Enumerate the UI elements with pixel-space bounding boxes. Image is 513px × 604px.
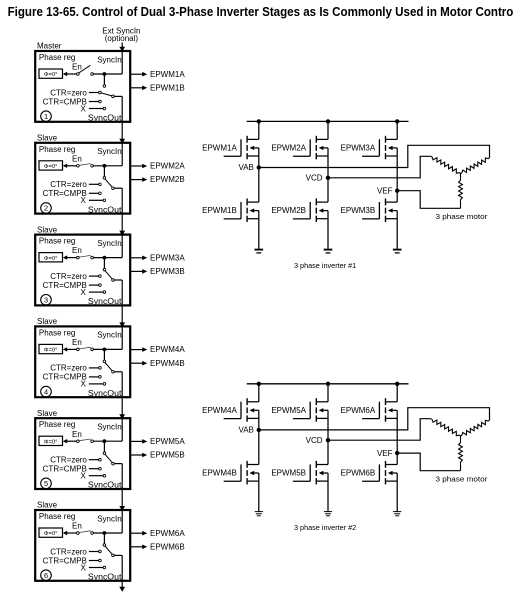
wire X (module 3) [89, 291, 103, 293]
svg-text:Φ=0°: Φ=0° [44, 256, 58, 262]
En switch left contact (module 5) [77, 440, 80, 443]
motor winding right inverter #2 [461, 420, 490, 436]
CTR=zero contact (module 2) [99, 183, 102, 186]
svg-text:SyncIn: SyncIn [97, 239, 121, 248]
wire SyncIn riser (module 1) [121, 52, 123, 74]
wire En switch to SyncIn riser (module 4) [93, 348, 122, 350]
X contact (module 3) [103, 291, 106, 294]
wire SyncOut module 3 to SyncIn module 4 [121, 305, 123, 323]
svg-text:En: En [72, 154, 82, 163]
junction phase node VAB inverter #2 [257, 428, 261, 432]
svg-text:VCD: VCD [306, 436, 323, 445]
wire X (module 4) [89, 383, 103, 385]
wire EPWM5A output (module 5) [130, 440, 142, 442]
wire CTR=zero (module 5) [89, 459, 99, 461]
wire junction to pass-through contact (module 4) [103, 349, 105, 360]
svg-text:EPWM1A: EPWM1A [150, 70, 185, 79]
svg-text:Phase reg: Phase reg [39, 237, 75, 246]
wire EPWM6B source to ground [396, 473, 398, 512]
svg-text:CTR=zero: CTR=zero [50, 272, 87, 281]
junction phase node VCD inverter #2 [326, 438, 330, 442]
wire Ext SyncIn into module 1 [121, 43, 123, 48]
svg-text:En: En [72, 246, 82, 255]
circled number 6 (module 6) [41, 570, 52, 581]
wire CTR=zero (module 1) [89, 92, 99, 94]
circled number 5 (module 5) [41, 478, 52, 489]
wire EPWM3A source to phase node [396, 148, 398, 191]
svg-text:Slave: Slave [37, 317, 58, 326]
pass-through contact (module 2) [103, 177, 106, 180]
CTR=zero contact (module 3) [99, 275, 102, 278]
wire pivot to SyncOut drop (module 1) [114, 95, 122, 97]
transistor Q11 EPWM5B [293, 480, 310, 482]
svg-text:3: 3 [44, 296, 48, 305]
wire CTR=CMPB (module 6) [89, 560, 99, 562]
CTR=CMPB contact (module 1) [99, 100, 102, 103]
ePWM module 2 (Slave) box [35, 143, 130, 214]
svg-text:3 phase motor: 3 phase motor [436, 212, 488, 221]
svg-text:X: X [80, 380, 86, 389]
svg-text:Φ=0°: Φ=0° [44, 531, 58, 537]
svg-text:EPWM2A: EPWM2A [271, 144, 306, 153]
CTR=zero contact (module 5) [99, 458, 102, 461]
svg-text:Phase reg: Phase reg [39, 328, 75, 337]
wire SyncIn riser (module 2) [121, 144, 123, 166]
wire SyncOut drop (module 4) [121, 372, 123, 397]
svg-text:VEF: VEF [377, 449, 393, 458]
wire EPWM6B output (module 6) [130, 546, 142, 548]
svg-text:VCD: VCD [306, 174, 323, 183]
X contact (module 4) [103, 383, 106, 386]
En switch right contact (module 3) [91, 256, 94, 259]
wire rail to EPWM3A drain [396, 121, 398, 139]
wire pivot to SyncOut drop (module 5) [114, 463, 122, 465]
wire SyncIn riser (module 6) [121, 511, 123, 533]
wire SyncOut drop (module 6) [121, 555, 123, 580]
ePWM module 5 (Slave) box [35, 418, 130, 489]
svg-text:Slave: Slave [37, 501, 58, 510]
svg-text:Φ=0°: Φ=0° [44, 348, 58, 354]
wire phase node to EPWM6B drain [396, 453, 398, 464]
svg-text:Figure 13-65. Control of Dual: Figure 13-65. Control of Dual 3-Phase In… [8, 5, 513, 19]
svg-text:SyncIn: SyncIn [97, 55, 121, 64]
transistor Q10 EPWM4B [224, 480, 241, 482]
En switch right contact (module 5) [91, 440, 94, 443]
svg-text:SyncIn: SyncIn [97, 147, 121, 156]
svg-text:Phase reg: Phase reg [39, 420, 75, 429]
svg-text:SyncOut: SyncOut [88, 573, 122, 582]
CTR=CMPB contact (module 6) [99, 559, 102, 562]
junction phase node VEF inverter #1 [395, 189, 399, 193]
wire pivot to SyncOut drop (module 6) [114, 554, 122, 556]
circled number 3 (module 3) [41, 295, 52, 306]
power rail inverter #2 [247, 383, 409, 385]
svg-text:Phase reg: Phase reg [39, 145, 75, 154]
wire EPWM4A output (module 4) [130, 349, 142, 351]
wire rail to EPWM2A drain [327, 121, 329, 139]
svg-text:2: 2 [44, 204, 48, 213]
SyncOut select blade to pass-through (module 6) [105, 546, 112, 554]
svg-text:Master: Master [37, 42, 62, 51]
phase register box Φ=0° (module 1) [39, 69, 63, 78]
pass-through contact (module 6) [103, 544, 106, 547]
wire junction to pass-through contact (module 3) [103, 258, 105, 269]
En switch blade closed (module 3) [79, 255, 91, 257]
transistor Q8 EPWM5A [293, 418, 310, 420]
svg-text:EPWM1B: EPWM1B [150, 83, 185, 92]
wire X (module 5) [89, 475, 103, 477]
SyncOut select pivot contact (module 6) [112, 554, 115, 557]
svg-text:Slave: Slave [37, 225, 58, 234]
En switch blade closed (module 6) [79, 531, 91, 533]
wire CTR=zero (module 3) [89, 275, 99, 277]
wire EPWM2B output (module 2) [130, 179, 142, 181]
motor winding bottom inverter #1 [460, 174, 462, 179]
wire CTR=zero (module 2) [89, 183, 99, 185]
svg-text:CTR=zero: CTR=zero [50, 456, 87, 465]
phase register box Φ=0° (module 5) [39, 436, 63, 445]
SyncOut select pivot contact (module 5) [112, 462, 115, 465]
junction rail node leg 1 inverter #2 [257, 382, 261, 386]
svg-text:EPWM5A: EPWM5A [150, 437, 185, 446]
arrow into phase register (module 2) [63, 164, 67, 168]
svg-text:EPWM6A: EPWM6A [341, 406, 376, 415]
junction SyncIn node (module 5) [103, 439, 107, 443]
motor winding bottom inverter #2 [460, 436, 462, 441]
junction rail node leg 3 inverter #2 [395, 382, 399, 386]
wire EPWM4B source to ground [258, 473, 260, 512]
CTR=CMPB contact (module 5) [99, 467, 102, 470]
svg-text:EPWM3A: EPWM3A [341, 144, 376, 153]
wire rail to EPWM5A drain [327, 384, 329, 402]
ePWM module 4 (Slave) box [35, 326, 130, 397]
wire X (module 2) [89, 199, 103, 201]
wire EPWM6A source to phase node [396, 410, 398, 453]
X contact (module 2) [103, 199, 106, 202]
wire arrow to En switch contact (module 1) [67, 73, 77, 75]
transistor Q4 EPWM1B [224, 218, 241, 220]
X contact (module 5) [103, 474, 106, 477]
wire phase node to EPWM2B drain [327, 178, 329, 202]
wire EPWM2A output (module 2) [130, 165, 142, 167]
wire SyncIn riser (module 5) [121, 419, 123, 441]
svg-text:Phase reg: Phase reg [39, 512, 75, 521]
svg-text:SyncIn: SyncIn [97, 331, 121, 340]
wire SyncOut drop (module 3) [121, 280, 123, 305]
En switch left contact (module 4) [77, 348, 80, 351]
circled number 2 (module 2) [41, 203, 52, 214]
wire EPWM5A source to phase node [327, 410, 329, 440]
svg-text:VEF: VEF [377, 186, 393, 195]
wire X (module 6) [89, 567, 103, 569]
En switch blade closed (module 2) [79, 164, 91, 166]
pass-through contact (module 4) [103, 360, 106, 363]
SyncOut select blade to pass-through (module 2) [105, 179, 112, 187]
svg-text:EPWM3B: EPWM3B [150, 267, 185, 276]
wire SyncOut module 2 to SyncIn module 3 [121, 214, 123, 232]
wire SyncIn riser (module 3) [121, 236, 123, 258]
svg-text:SyncOut: SyncOut [88, 297, 122, 306]
wire phase node to EPWM4B drain [258, 430, 260, 465]
junction SyncIn node (module 6) [103, 531, 107, 535]
junction rail node leg 2 inverter #2 [326, 382, 330, 386]
svg-text:EPWM4A: EPWM4A [202, 406, 237, 415]
junction phase node VAB inverter #1 [257, 165, 261, 169]
svg-text:4: 4 [44, 387, 48, 396]
wire CTR=CMPB (module 1) [89, 101, 99, 103]
En switch left contact (module 3) [77, 256, 80, 259]
transistor Q12 EPWM6B [362, 480, 379, 482]
junction SyncIn node (module 4) [103, 348, 107, 352]
phase register box Φ=0° (module 4) [39, 344, 63, 353]
wire En switch to SyncIn riser (module 2) [93, 165, 122, 167]
wire rail to EPWM4A drain [258, 384, 260, 402]
svg-text:X: X [80, 288, 86, 297]
svg-text:EPWM6B: EPWM6B [150, 542, 185, 551]
junction SyncIn node (module 2) [103, 164, 107, 168]
En switch left contact (module 1) [77, 73, 80, 76]
wire EPWM5B output (module 5) [130, 454, 142, 456]
wire junction to pass-through contact (module 6) [103, 533, 105, 544]
svg-text:CTR=zero: CTR=zero [50, 180, 87, 189]
svg-text:EPWM5B: EPWM5B [271, 469, 306, 478]
SyncOut select blade to pass-through (module 5) [105, 454, 112, 462]
svg-text:SyncIn: SyncIn [97, 514, 121, 523]
junction SyncIn node (module 1) [103, 72, 107, 76]
pass-through contact (module 3) [103, 268, 106, 271]
ground leg 2 inverter #2 [324, 511, 332, 513]
SyncOut select pivot contact (module 4) [112, 371, 115, 374]
wire EPWM1B output (module 1) [130, 87, 142, 89]
wire EPWM3B source to ground [396, 211, 398, 250]
SyncOut select pivot contact (module 1) [112, 95, 115, 98]
junction phase node VEF inverter #2 [395, 451, 399, 455]
pass-through contact (module 5) [103, 452, 106, 455]
SyncOut select blade to CTR=zero (module 1) [101, 93, 112, 96]
SyncOut select pivot contact (module 3) [112, 279, 115, 282]
ground leg 3 inverter #2 [393, 511, 401, 513]
X contact (module 6) [103, 566, 106, 569]
junction phase node VCD inverter #1 [326, 176, 330, 180]
ground leg 3 inverter #1 [393, 249, 402, 251]
wire EPWM2B source to ground [327, 211, 329, 250]
svg-text:EPWM5B: EPWM5B [150, 451, 185, 460]
ePWM module 1 (Master) box [35, 51, 130, 122]
wire EPWM1A output (module 1) [130, 73, 142, 75]
wire SyncOut module 6 continues down [121, 581, 123, 588]
SyncOut select blade to pass-through (module 3) [105, 271, 112, 279]
wire CTR=zero (module 4) [89, 367, 99, 369]
ground leg 2 inverter #1 [324, 249, 333, 251]
wire CTR=CMPB (module 3) [89, 284, 99, 286]
CTR=zero contact (module 1) [99, 91, 102, 94]
wire SyncOut module 5 to SyncIn module 6 [121, 489, 123, 507]
ground leg 1 inverter #2 [255, 511, 263, 513]
svg-text:Phase reg: Phase reg [39, 53, 75, 62]
svg-text:X: X [80, 472, 86, 481]
phase register box Φ=0° (module 6) [39, 528, 63, 537]
svg-text:En: En [72, 338, 82, 347]
ePWM module 3 (Slave) box [35, 235, 130, 306]
transistor Q3 EPWM3A [362, 155, 379, 157]
svg-text:En: En [72, 522, 82, 531]
svg-text:1: 1 [44, 112, 48, 121]
wire SyncOut drop (module 1) [121, 96, 123, 121]
transistor Q5 EPWM2B [293, 218, 310, 220]
wire VAB to motor inverter #1 [259, 145, 490, 167]
wire pivot to SyncOut drop (module 3) [114, 279, 122, 281]
svg-text:X: X [80, 104, 86, 113]
svg-text:CTR=zero: CTR=zero [50, 364, 87, 373]
svg-text:SyncOut: SyncOut [88, 205, 122, 214]
X contact (module 1) [103, 107, 106, 110]
svg-text:SyncOut: SyncOut [88, 114, 122, 123]
wire arrow to En switch contact (module 4) [67, 348, 77, 350]
junction rail node leg 2 inverter #1 [326, 119, 330, 123]
power rail inverter #1 [247, 120, 409, 122]
wire rail to EPWM1A drain [258, 121, 260, 139]
wire phase node to EPWM5B drain [327, 440, 329, 464]
En switch right contact (module 2) [91, 165, 94, 168]
svg-text:EPWM2B: EPWM2B [150, 175, 185, 184]
CTR=CMPB contact (module 2) [99, 192, 102, 195]
junction SyncIn node (module 3) [103, 256, 107, 260]
phase register box Φ=0° (module 3) [39, 253, 63, 262]
transistor Q2 EPWM2A [293, 155, 310, 157]
svg-text:3 phase inverter #1: 3 phase inverter #1 [294, 261, 356, 270]
svg-text:SyncOut: SyncOut [88, 481, 122, 490]
svg-text:X: X [80, 563, 86, 572]
svg-text:VAB: VAB [238, 426, 253, 435]
En switch left contact (module 2) [77, 165, 80, 168]
circled number 4 (module 4) [41, 386, 52, 397]
svg-text:Φ=0°: Φ=0° [44, 72, 58, 78]
phase register box Φ=0° (module 2) [39, 161, 63, 170]
junction rail node leg 3 inverter #1 [395, 119, 399, 123]
wire EPWM6A output (module 6) [130, 532, 142, 534]
wire VCD to motor inverter #2 [328, 419, 431, 441]
En switch left contact (module 6) [77, 532, 80, 535]
svg-text:En: En [72, 430, 82, 439]
svg-text:X: X [80, 196, 86, 205]
arrow into phase register (module 6) [63, 531, 67, 535]
wire VCD to motor inverter #1 [328, 156, 431, 178]
svg-text:Slave: Slave [37, 134, 58, 143]
wire arrow to En switch contact (module 5) [67, 440, 77, 442]
svg-text:Slave: Slave [37, 409, 58, 418]
transistor Q9 EPWM6A [362, 418, 379, 420]
svg-text:EPWM1B: EPWM1B [202, 206, 237, 215]
wire VEF to motor inverter #1 [397, 191, 460, 209]
wire SyncIn riser (module 4) [121, 327, 123, 349]
svg-text:Φ=0°: Φ=0° [44, 164, 58, 170]
svg-text:EPWM2B: EPWM2B [271, 206, 306, 215]
wire pivot to SyncOut drop (module 2) [114, 187, 122, 189]
svg-text:EPWM6B: EPWM6B [341, 469, 376, 478]
svg-text:Φ=0°: Φ=0° [44, 439, 58, 445]
En switch blade closed (module 4) [79, 347, 91, 349]
En switch right contact (module 6) [91, 532, 94, 535]
svg-text:6: 6 [44, 571, 48, 580]
wire pivot to SyncOut drop (module 4) [114, 371, 122, 373]
wire CTR=zero (module 6) [89, 551, 99, 553]
circled number 1 (module 1) [41, 111, 52, 122]
arrow into phase register (module 4) [63, 347, 67, 351]
svg-text:CTR=zero: CTR=zero [50, 547, 87, 556]
transistor Q1 EPWM1A [224, 155, 241, 157]
svg-text:(optional): (optional) [105, 34, 139, 43]
wire SyncOut drop (module 2) [121, 188, 123, 213]
wire VAB to motor inverter #2 [259, 408, 490, 430]
CTR=CMPB contact (module 4) [99, 376, 102, 379]
wire junction to pass-through contact (module 2) [103, 166, 105, 177]
wire EPWM3A output (module 3) [130, 257, 142, 259]
svg-text:3 phase motor: 3 phase motor [436, 474, 488, 483]
svg-text:EPWM4A: EPWM4A [150, 345, 185, 354]
wire junction to pass-through contact (module 5) [103, 441, 105, 452]
wire X (module 1) [89, 108, 103, 110]
wire SyncOut module 1 to SyncIn module 2 [121, 122, 123, 140]
svg-text:3 phase inverter #2: 3 phase inverter #2 [294, 523, 356, 532]
ePWM module 6 (Slave) box [35, 510, 130, 581]
wire arrow to En switch contact (module 2) [67, 165, 77, 167]
svg-text:EPWM3A: EPWM3A [150, 253, 185, 262]
wire EPWM3B output (module 3) [130, 270, 142, 272]
wire phase node to EPWM1B drain [258, 168, 260, 203]
svg-text:En: En [72, 63, 82, 72]
svg-text:5: 5 [44, 479, 48, 488]
svg-text:EPWM6A: EPWM6A [150, 529, 185, 538]
motor winding right inverter #1 [461, 158, 490, 174]
CTR=zero contact (module 6) [99, 550, 102, 553]
wire EPWM1A source to phase node [258, 148, 260, 168]
svg-text:EPWM1A: EPWM1A [202, 144, 237, 153]
En switch right contact (module 1) [91, 73, 94, 76]
arrow into phase register (module 5) [63, 439, 67, 443]
wire EPWM2A source to phase node [327, 148, 329, 178]
wire CTR=CMPB (module 4) [89, 376, 99, 378]
CTR=CMPB contact (module 3) [99, 284, 102, 287]
wire CTR=CMPB (module 2) [89, 192, 99, 194]
svg-text:VAB: VAB [238, 163, 253, 172]
wire EPWM1B source to ground [258, 211, 260, 250]
En switch blade open (module 1) [79, 65, 91, 73]
wire arrow to En switch contact (module 3) [67, 257, 77, 259]
transistor Q7 EPWM4A [224, 418, 241, 420]
svg-text:EPWM3B: EPWM3B [341, 206, 376, 215]
motor winding left inverter #2 [431, 419, 461, 436]
SyncOut select blade to pass-through (module 4) [105, 363, 112, 371]
wire phase node to EPWM3B drain [396, 191, 398, 202]
SyncOut select pivot contact (module 2) [112, 187, 115, 190]
svg-text:EPWM4B: EPWM4B [150, 359, 185, 368]
motor winding left inverter #1 [431, 156, 461, 173]
junction rail node leg 1 inverter #1 [257, 119, 261, 123]
wire En switch to SyncIn riser (module 1) [93, 73, 122, 75]
wire En switch to SyncIn riser (module 3) [93, 257, 122, 259]
wire EPWM4B output (module 4) [130, 362, 142, 364]
wire junction to pass-through contact (module 1) [103, 74, 105, 85]
wire SyncOut module 4 to SyncIn module 5 [121, 397, 123, 415]
ground leg 1 inverter #1 [255, 249, 264, 251]
arrow into phase register (module 3) [63, 255, 67, 259]
wire En switch to SyncIn riser (module 5) [93, 440, 122, 442]
wire SyncOut drop (module 5) [121, 464, 123, 489]
wire EPWM5B source to ground [327, 473, 329, 512]
svg-text:CTR=zero: CTR=zero [50, 88, 87, 97]
svg-text:SyncIn: SyncIn [97, 423, 121, 432]
wire CTR=CMPB (module 5) [89, 468, 99, 470]
